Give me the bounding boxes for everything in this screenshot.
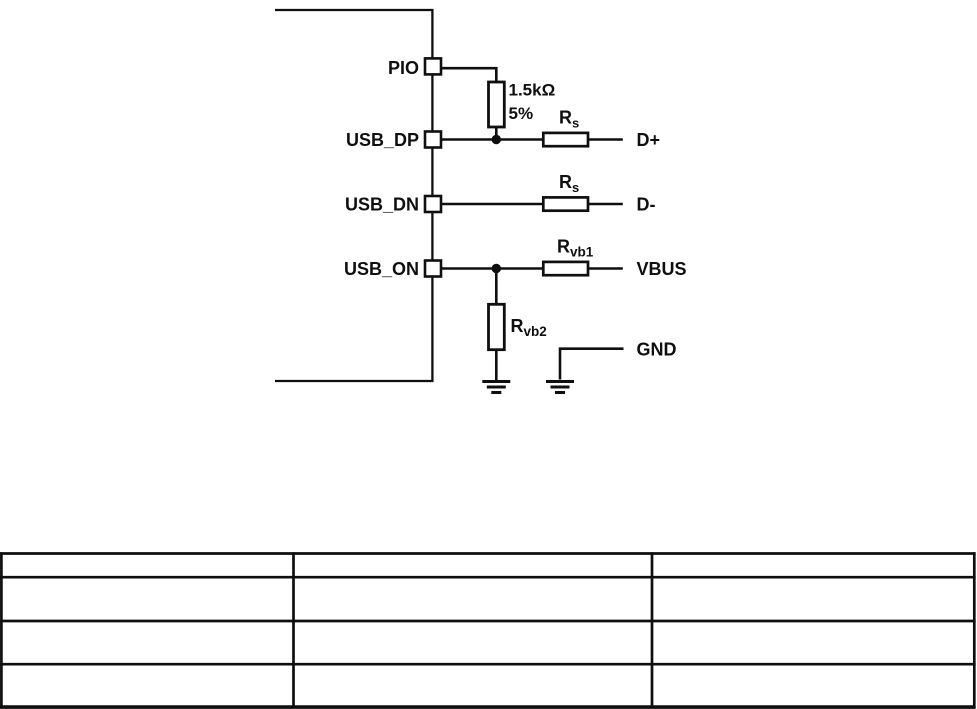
svg-text:1.5kΩ: 1.5kΩ bbox=[509, 81, 556, 100]
wire GND net (corner) bbox=[560, 349, 624, 380]
wire Rs to D+ bbox=[588, 138, 623, 141]
svg-text:USB_ON: USB_ON bbox=[344, 259, 419, 279]
resistor Rvb2 body bbox=[489, 304, 505, 349]
resistor Rvb1 body bbox=[543, 262, 588, 275]
svg-text:PIO: PIO bbox=[388, 58, 419, 78]
svg-text:5%: 5% bbox=[509, 104, 534, 123]
resistor Rs (D- series) body bbox=[543, 197, 588, 210]
svg-text:Rvb2: Rvb2 bbox=[511, 316, 547, 339]
table horizontal line 5 (bottom border) bbox=[0, 705, 976, 709]
svg-text:VBUS: VBUS bbox=[637, 259, 687, 279]
ground symbol (GND net) bbox=[546, 382, 574, 393]
wire Rvb2 bottom to ground bbox=[495, 350, 498, 381]
table vertical line left border bbox=[0, 552, 3, 708]
table horizontal line 1 (top border) bbox=[0, 552, 976, 555]
wire USB_DP to Rs1 bbox=[442, 138, 543, 141]
table vertical line column 1 bbox=[292, 552, 295, 708]
table vertical line right border bbox=[973, 552, 976, 708]
svg-text:D-: D- bbox=[637, 194, 656, 214]
wire Rvb1 to VBUS bbox=[588, 267, 623, 270]
table horizontal line 3 bbox=[0, 620, 976, 623]
svg-text:D+: D+ bbox=[637, 130, 661, 150]
table horizontal line 4 bbox=[0, 663, 976, 666]
svg-text:Rs: Rs bbox=[559, 172, 579, 195]
resistor R1 1.5k body bbox=[489, 82, 505, 127]
table horizontal line 2 bbox=[0, 576, 976, 579]
junction node DP bbox=[492, 135, 501, 144]
resistor Rs (D+ series) body bbox=[543, 133, 588, 146]
wire USB_ON to Rvb1 bbox=[442, 267, 543, 270]
pin USB_ON bbox=[425, 261, 441, 277]
table vertical line column 2 bbox=[651, 552, 654, 708]
svg-text:USB_DP: USB_DP bbox=[346, 130, 419, 150]
wire Rs to D- bbox=[588, 203, 623, 206]
wire USB_DN to Rs2 bbox=[442, 203, 543, 206]
pin PIO (square pin on IC edge) bbox=[425, 58, 441, 74]
svg-text:Rs: Rs bbox=[559, 107, 579, 130]
wire PIO to R1 top bbox=[442, 68, 497, 82]
wire R1 bottom to DP node bbox=[495, 127, 498, 140]
wire ON node down to Rvb2 bbox=[495, 269, 498, 305]
IC U1 (partial outline: top, right, bottom edges) bbox=[275, 10, 432, 381]
junction node ON bbox=[492, 264, 501, 273]
svg-text:GND: GND bbox=[637, 340, 677, 360]
svg-text:Rvb1: Rvb1 bbox=[557, 236, 594, 259]
svg-text:USB_DN: USB_DN bbox=[345, 194, 419, 214]
ground symbol (below Rvb2) bbox=[482, 382, 510, 393]
pin USB_DN bbox=[425, 196, 441, 212]
pin USB_DP bbox=[425, 132, 441, 148]
table grid bbox=[0, 552, 976, 708]
